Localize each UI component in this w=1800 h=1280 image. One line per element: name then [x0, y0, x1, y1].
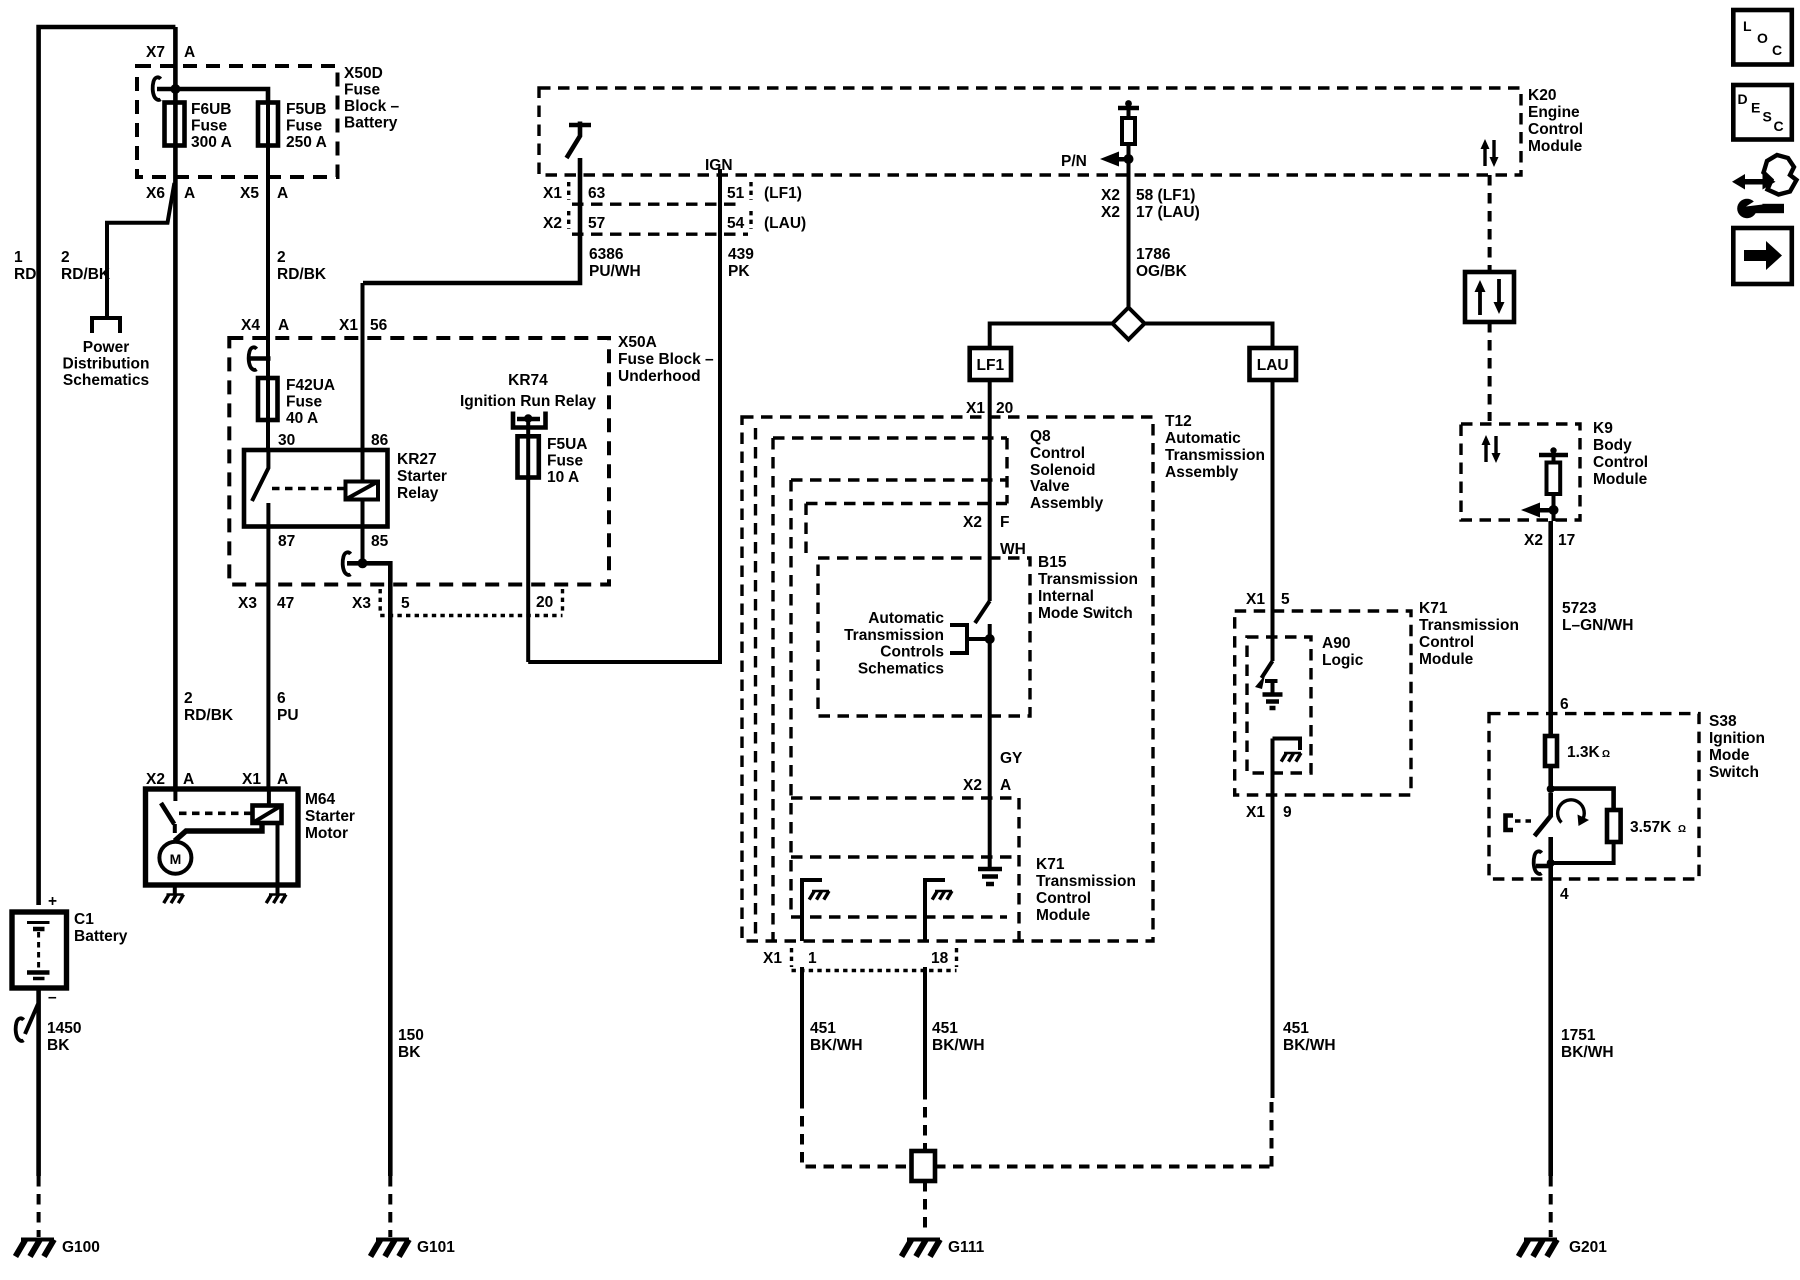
svg-text:451: 451 — [1283, 1020, 1309, 1037]
svg-text:X3: X3 — [352, 595, 371, 612]
svg-text:X1: X1 — [1246, 804, 1265, 821]
svg-text:Relay: Relay — [397, 485, 439, 502]
svg-text:Module: Module — [1593, 471, 1648, 488]
svg-text:Transmission: Transmission — [1165, 447, 1265, 464]
svg-text:Module: Module — [1419, 651, 1474, 668]
wire LF1 down — [988, 380, 992, 601]
serial data connector box — [1465, 272, 1514, 322]
relay KR27 mechanical link — [272, 487, 345, 491]
wire F5UB to X4 (2 RD/BK) — [266, 89, 270, 450]
earth ground B15 wire — [978, 869, 1002, 884]
ground G100 — [16, 1240, 55, 1257]
branch to 3.57K — [1551, 789, 1614, 810]
splice hook at S38 bottom — [1534, 851, 1542, 874]
wire diamond to LAU — [1145, 324, 1273, 349]
node S38 junction bottom — [1547, 859, 1555, 867]
svg-text:150: 150 — [398, 1027, 424, 1044]
svg-text:54: 54 — [727, 215, 745, 232]
svg-text:Control: Control — [1593, 454, 1648, 471]
svg-text:E: E — [1751, 100, 1760, 116]
svg-text:17: 17 — [1558, 532, 1575, 549]
battery C1 — [12, 912, 67, 988]
svg-text:Block –: Block – — [344, 98, 400, 115]
svg-text:K9: K9 — [1593, 420, 1613, 437]
svg-text:A: A — [184, 185, 195, 202]
K71 ground pigtail 1 — [802, 880, 822, 941]
connector ticks X1 strip — [792, 948, 957, 967]
svg-text:56: 56 — [370, 317, 388, 334]
icon DESC box — [1733, 85, 1792, 140]
svg-text:X7: X7 — [146, 44, 165, 61]
svg-text:(LF1): (LF1) — [764, 185, 802, 202]
svg-text:G100: G100 — [62, 1239, 100, 1256]
dashed 451 wires to splice — [802, 1098, 912, 1167]
splice hook at 85 — [343, 552, 351, 575]
svg-text:G111: G111 — [948, 1239, 985, 1256]
ATC schematics bracket — [950, 625, 986, 653]
K9 pull-up T bar — [1539, 453, 1568, 458]
svg-text:5723: 5723 — [1562, 600, 1597, 617]
node switch junction — [985, 634, 995, 644]
svg-text:X1: X1 — [339, 317, 358, 334]
svg-text:PU/WH: PU/WH — [589, 263, 641, 280]
svg-text:Controls: Controls — [880, 644, 944, 661]
svg-text:C1: C1 — [74, 911, 94, 928]
svg-text:20: 20 — [996, 400, 1013, 417]
svg-text:Body: Body — [1593, 437, 1632, 454]
svg-text:X1: X1 — [763, 950, 782, 967]
svg-text:BK/WH: BK/WH — [810, 1037, 863, 1054]
svg-text:X2: X2 — [146, 771, 165, 788]
svg-text:250 A: 250 A — [286, 134, 327, 151]
svg-text:2: 2 — [184, 690, 193, 707]
svg-text:Control: Control — [1030, 445, 1085, 462]
svg-text:Automatic: Automatic — [868, 610, 944, 627]
svg-text:F: F — [1000, 514, 1009, 531]
svg-text:LAU: LAU — [1257, 357, 1289, 374]
svg-text:17 (LAU): 17 (LAU) — [1136, 204, 1200, 221]
dashed wire to G101 — [388, 1176, 392, 1237]
ground G111 — [902, 1240, 941, 1257]
fuse F6UB — [165, 103, 185, 146]
svg-text:63: 63 — [588, 185, 606, 202]
svg-text:C: C — [1774, 118, 1784, 134]
svg-text:A: A — [184, 44, 195, 61]
wire 451 BK/WH pin1 — [800, 967, 804, 1098]
boundary line V4 — [789, 480, 792, 917]
ground G101 — [371, 1240, 410, 1257]
svg-text:Ignition Run Relay: Ignition Run Relay — [460, 393, 596, 410]
svg-text:X2: X2 — [543, 215, 562, 232]
svg-text:RD: RD — [14, 266, 36, 283]
svg-text:(LAU): (LAU) — [764, 215, 806, 232]
svg-text:F5UB: F5UB — [286, 101, 326, 118]
svg-text:X3: X3 — [238, 595, 257, 612]
svg-text:PK: PK — [728, 263, 750, 280]
svg-text:Module: Module — [1036, 907, 1091, 924]
serial data dashed wire K20 to K9 — [1488, 175, 1492, 272]
wire 451 BK/WH pin18 — [923, 967, 927, 1089]
svg-text:5: 5 — [401, 595, 410, 612]
icon LOC box — [1733, 10, 1792, 65]
svg-text:Transmission: Transmission — [844, 627, 944, 644]
svg-text:Fuse: Fuse — [344, 82, 381, 99]
svg-text:KR27: KR27 — [397, 451, 437, 468]
svg-text:87: 87 — [278, 533, 295, 550]
wire F5UA down to 439 PK corner — [526, 478, 530, 663]
K71 box top — [791, 796, 1019, 799]
svg-text:Fuse: Fuse — [191, 118, 228, 135]
fine dotted connector strip under X50A — [380, 614, 562, 617]
svg-text:Valve: Valve — [1030, 478, 1070, 495]
svg-text:40 A: 40 A — [286, 410, 318, 427]
svg-text:GY: GY — [1000, 750, 1023, 767]
A90 fixed contact and earth ground — [1265, 681, 1278, 693]
svg-text:1: 1 — [808, 950, 817, 967]
icon forward arrow box — [1733, 228, 1792, 284]
svg-text:Automatic: Automatic — [1165, 430, 1241, 447]
splice tap on 1450 BK — [25, 1004, 38, 1034]
svg-text:Switch: Switch — [1709, 764, 1759, 781]
svg-text:Power: Power — [83, 339, 130, 356]
svg-text:58 (LF1): 58 (LF1) — [1136, 187, 1195, 204]
fuse F5UA — [518, 436, 539, 477]
ignition switch glyph in K20 — [569, 123, 591, 128]
svg-text:6: 6 — [277, 690, 286, 707]
svg-text:Module: Module — [1528, 138, 1583, 155]
svg-text:57: 57 — [588, 215, 605, 232]
resistor 1.3K — [1545, 736, 1557, 766]
splice hook at X4 — [249, 347, 257, 370]
svg-text:X4: X4 — [241, 317, 260, 334]
svg-text:Q8: Q8 — [1030, 428, 1051, 445]
svg-text:Motor: Motor — [305, 825, 348, 842]
svg-text:X1: X1 — [242, 771, 261, 788]
svg-text:WH: WH — [1000, 541, 1026, 558]
svg-text:51: 51 — [727, 185, 745, 202]
svg-text:A: A — [277, 771, 288, 788]
power distribution bracket — [90, 318, 122, 333]
wire LAU down to K71 — [1271, 380, 1275, 661]
svg-text:BK: BK — [398, 1044, 421, 1061]
wire tap to power distribution — [107, 183, 174, 317]
svg-text:6386: 6386 — [589, 246, 624, 263]
serial data arrows in K9 — [1484, 442, 1487, 462]
K71 ground pigtail 18 — [925, 880, 945, 941]
svg-text:A: A — [183, 771, 194, 788]
svg-text:1450: 1450 — [47, 1020, 81, 1037]
B15 switch arm — [975, 601, 990, 623]
K20 connector row line X2 — [572, 202, 742, 205]
svg-text:1: 1 — [14, 249, 23, 266]
svg-text:451: 451 — [810, 1020, 836, 1037]
svg-text:Assembly: Assembly — [1165, 464, 1239, 481]
dashed wire to G100 — [37, 1176, 41, 1237]
svg-text:2: 2 — [277, 249, 286, 266]
fine dotted X1 strip — [792, 969, 957, 972]
svg-text:Logic: Logic — [1322, 652, 1364, 669]
K71 inner line H8 — [791, 855, 1016, 858]
svg-text:D: D — [1738, 91, 1748, 107]
connector box LAU — [1250, 348, 1297, 380]
svg-text:LF1: LF1 — [977, 357, 1005, 374]
svg-text:RD/BK: RD/BK — [277, 266, 327, 283]
wire 6386 PU/WH — [363, 158, 580, 283]
K9 box — [1461, 424, 1580, 520]
svg-text:Battery: Battery — [344, 115, 398, 132]
svg-text:M64: M64 — [305, 791, 336, 808]
inner boundary line 3 / Q8 left — [771, 438, 774, 941]
connector ticks left — [567, 182, 570, 229]
ECM K20 dashed box — [539, 88, 1521, 175]
relay KR27 switch arm — [252, 450, 268, 501]
svg-text:Schematics: Schematics — [858, 661, 944, 678]
svg-text:X2: X2 — [1101, 187, 1120, 204]
svg-text:Fuse: Fuse — [286, 118, 323, 135]
svg-text:Transmission: Transmission — [1419, 617, 1519, 634]
T12 box — [742, 417, 1153, 941]
ground stub left under M64 — [173, 885, 177, 894]
svg-text:B15: B15 — [1038, 554, 1067, 571]
svg-text:2: 2 — [61, 249, 70, 266]
node S38 junction top — [1547, 785, 1555, 793]
relay KR27 coil — [346, 482, 379, 500]
svg-text:G101: G101 — [417, 1239, 455, 1256]
splice box G111 — [912, 1151, 936, 1181]
svg-text:C: C — [1772, 42, 1782, 58]
svg-text:Battery: Battery — [74, 928, 128, 945]
svg-text:Mode: Mode — [1709, 747, 1750, 764]
svg-text:X2: X2 — [1101, 204, 1120, 221]
svg-text:M: M — [170, 851, 182, 867]
M64 link dashed — [179, 811, 251, 815]
K71 right box — [1235, 611, 1411, 795]
svg-text:L: L — [1743, 18, 1752, 34]
svg-text:RD/BK: RD/BK — [61, 266, 111, 283]
svg-text:Control: Control — [1528, 121, 1583, 138]
svg-text:G201: G201 — [1569, 1239, 1607, 1256]
wire contact to box bottom — [276, 823, 280, 885]
wire 1751 BK/WH — [1548, 879, 1553, 1176]
svg-text:P/N: P/N — [1061, 153, 1087, 170]
boundary line V5 — [804, 504, 807, 559]
svg-text:Engine: Engine — [1528, 104, 1580, 121]
wire to junction — [1548, 766, 1553, 789]
wire F6UB to M64 X2 (2 RD/BK) — [173, 27, 178, 789]
wire 5723 L-GN/WH — [1548, 521, 1553, 736]
svg-text:X1: X1 — [543, 185, 562, 202]
A90 box — [1247, 637, 1311, 773]
fuse F5UB — [258, 103, 278, 146]
svg-text:K71: K71 — [1036, 856, 1065, 873]
A90 ground pigtail — [1273, 739, 1301, 751]
K20 connector row line bottom — [572, 232, 748, 235]
svg-text:L–GN/WH: L–GN/WH — [1562, 617, 1633, 634]
svg-text:KR74: KR74 — [508, 372, 548, 389]
svg-text:F42UA: F42UA — [286, 377, 335, 394]
svg-text:Control: Control — [1419, 634, 1474, 651]
wire pin 86 from X1 56 — [361, 283, 365, 482]
fuse block X50A dashed box — [229, 338, 609, 585]
svg-text:BK/WH: BK/WH — [1283, 1037, 1336, 1054]
ground stub right under M64 — [276, 885, 280, 894]
wire 3.57K bottom to junction — [1551, 842, 1614, 863]
svg-text:T12: T12 — [1165, 413, 1192, 430]
wire pin 87 to M64 X1 — [266, 527, 270, 790]
ground G201 — [1519, 1240, 1558, 1257]
svg-text:Control: Control — [1036, 890, 1091, 907]
svg-text:Underhood: Underhood — [618, 368, 701, 385]
wire X1 stub into contact — [267, 789, 271, 806]
boundary line H3 — [791, 478, 1007, 481]
M64 switch arm — [173, 789, 177, 801]
relay KR27 box — [244, 450, 388, 527]
A90 switch arm — [1262, 661, 1273, 678]
svg-text:O: O — [1757, 30, 1768, 46]
splice diamond — [1113, 308, 1145, 340]
wire below switch — [988, 624, 992, 869]
svg-text:20: 20 — [536, 594, 553, 611]
svg-text:A: A — [277, 185, 288, 202]
svg-text:Fuse Block –: Fuse Block – — [618, 351, 714, 368]
svg-text:Ω: Ω — [1678, 824, 1686, 835]
svg-text:300 A: 300 A — [191, 134, 232, 151]
svg-text:X2: X2 — [963, 777, 982, 794]
wire battery negative (1450 BK) — [36, 988, 41, 1176]
svg-text:BK: BK — [47, 1037, 70, 1054]
svg-text:1.3K: 1.3K — [1567, 744, 1601, 761]
wire X1 9 down — [1271, 739, 1275, 1099]
splice hook — [16, 1018, 24, 1041]
S38 box — [1489, 714, 1699, 879]
svg-text:BK/WH: BK/WH — [1561, 1044, 1614, 1061]
svg-text:–: – — [48, 989, 57, 1006]
node pin85 junction — [358, 558, 368, 568]
wire pin 85 — [361, 500, 365, 564]
dashed wire splice to G111 — [923, 1181, 927, 1231]
node X7 junction dot — [170, 84, 180, 94]
svg-text:Assembly: Assembly — [1030, 495, 1104, 512]
svg-text:30: 30 — [278, 432, 295, 449]
icon data link connector — [1732, 155, 1797, 218]
svg-text:Solenoid: Solenoid — [1030, 462, 1095, 479]
wire battery positive feed (1 RD) — [39, 27, 176, 905]
resistor 3.57K — [1607, 810, 1621, 842]
wire from X7 junction to F5UB — [157, 89, 268, 103]
svg-text:Starter: Starter — [397, 468, 447, 485]
connector ticks right — [749, 182, 752, 229]
Q8 box bottom — [806, 502, 1007, 505]
P/N arrow — [1100, 152, 1119, 167]
Q8 box right — [1005, 438, 1008, 504]
svg-text:X6: X6 — [146, 185, 165, 202]
svg-text:BK/WH: BK/WH — [932, 1037, 985, 1054]
svg-text:Transmission: Transmission — [1036, 873, 1136, 890]
K20 internal pull-up T bar — [1118, 106, 1139, 111]
svg-text:K20: K20 — [1528, 87, 1556, 104]
svg-text:X2: X2 — [1524, 532, 1543, 549]
svg-text:F6UB: F6UB — [191, 101, 231, 118]
svg-text:Fuse: Fuse — [286, 394, 323, 411]
wire 85 to G101 (150 BK) — [347, 563, 390, 1176]
svg-text:F5UA: F5UA — [547, 436, 587, 453]
connector box LF1 — [970, 348, 1011, 380]
svg-text:Fuse: Fuse — [547, 453, 584, 470]
svg-text:X5: X5 — [240, 185, 259, 202]
svg-text:6: 6 — [1560, 696, 1569, 713]
svg-text:S38: S38 — [1709, 713, 1737, 730]
svg-text:X2: X2 — [963, 514, 982, 531]
svg-text:Transmission: Transmission — [1038, 571, 1138, 588]
node K9 junction — [1549, 505, 1559, 515]
svg-text:+: + — [48, 893, 57, 910]
svg-text:Ω: Ω — [1602, 749, 1610, 760]
wire 439 PK — [528, 169, 720, 662]
S38 dashed link — [1515, 819, 1534, 822]
svg-text:5: 5 — [1281, 591, 1290, 608]
K9 arrow — [1521, 503, 1540, 518]
splice hook at X7 — [153, 77, 161, 100]
inner boundary line 2 — [754, 428, 757, 941]
svg-text:Distribution: Distribution — [63, 356, 150, 373]
resistor in K20 — [1122, 118, 1135, 144]
svg-text:RD/BK: RD/BK — [184, 707, 234, 724]
svg-text:18: 18 — [931, 950, 949, 967]
connector tick right of 20 — [561, 589, 564, 612]
svg-text:85: 85 — [371, 533, 389, 550]
serial data arrows in K20 — [1483, 146, 1486, 166]
svg-text:A: A — [1000, 777, 1011, 794]
svg-text:10 A: 10 A — [547, 469, 579, 486]
svg-text:X1: X1 — [1246, 591, 1265, 608]
svg-text:Ignition: Ignition — [1709, 730, 1765, 747]
KR74 relay contact symbol — [513, 412, 546, 428]
B15 box — [818, 558, 1030, 716]
svg-text:Schematics: Schematics — [63, 372, 149, 389]
svg-text:X50A: X50A — [618, 334, 657, 351]
svg-text:X50D: X50D — [344, 65, 383, 82]
svg-text:K71: K71 — [1419, 600, 1448, 617]
wire diamond to LF1 — [990, 324, 1113, 349]
Q8 box top — [773, 436, 1007, 439]
svg-text:1751: 1751 — [1561, 1027, 1596, 1044]
resistor in K9 — [1547, 463, 1561, 495]
svg-text:A: A — [278, 317, 289, 334]
svg-text:439: 439 — [728, 246, 754, 263]
svg-text:S: S — [1763, 109, 1772, 125]
svg-text:OG/BK: OG/BK — [1136, 263, 1188, 280]
svg-text:1786: 1786 — [1136, 246, 1171, 263]
dashed wire to G201 — [1549, 1176, 1553, 1237]
K71 box right — [1017, 798, 1020, 941]
svg-text:3.57K: 3.57K — [1630, 819, 1672, 836]
node P/N junction — [1124, 154, 1134, 164]
svg-text:PU: PU — [277, 707, 299, 724]
K71 inner line H9 — [791, 915, 1007, 918]
fuse block X50D dashed box — [137, 66, 338, 177]
motor M circle — [159, 842, 191, 874]
S38 switch arm — [1535, 793, 1552, 836]
S38 E bracket — [1506, 816, 1514, 831]
fuse F42UA — [258, 378, 278, 420]
M64 contact rect — [253, 806, 282, 824]
svg-text:Starter: Starter — [305, 808, 355, 825]
svg-text:451: 451 — [932, 1020, 958, 1037]
S38 rotation arc — [1558, 800, 1585, 823]
starter motor M64 box — [146, 789, 299, 885]
svg-text:47: 47 — [277, 595, 294, 612]
connector tick X3 — [379, 589, 382, 612]
